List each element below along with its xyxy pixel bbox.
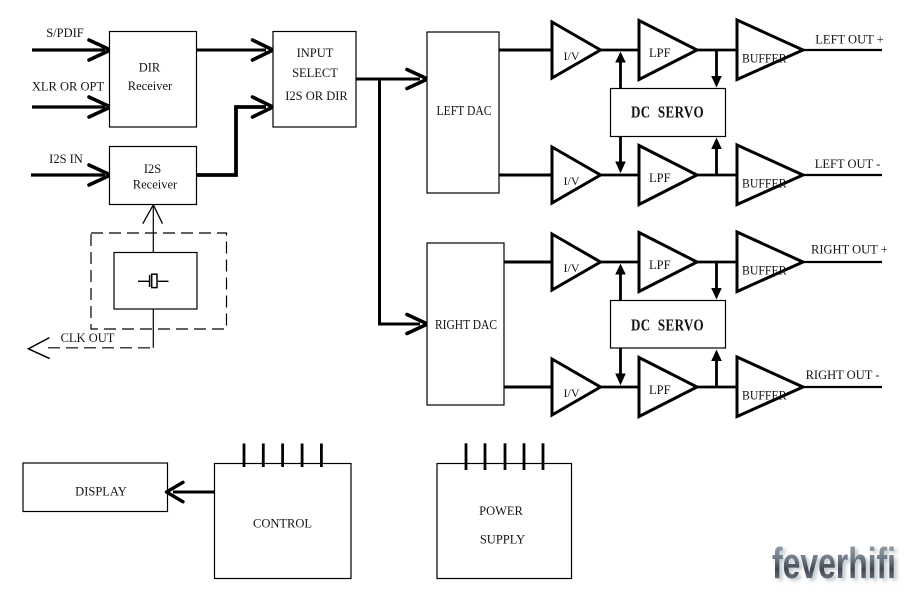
svg-text:CONTROL: CONTROL [253,517,312,531]
wire I/V3 to LPF3 [600,261,640,264]
power supply pins [466,443,543,470]
svg-text:BUFFER: BUFFER [742,389,787,403]
wire S/PDIF input [32,48,105,51]
svg-text:LPF: LPF [649,171,671,185]
svg-text:I2S OR DIR: I2S OR DIR [285,89,348,103]
svg-text:I2S IN: I2S IN [49,152,83,166]
amplifier LPF row1 [639,21,697,80]
servo1 arrow down into row2 wire [619,137,622,164]
amplifier I/V row4 [552,359,601,415]
open arrowhead at I2S receiver bottom [143,205,163,224]
wire right dac to I/V row3 [504,261,553,264]
svg-text:I2S: I2S [144,162,161,176]
block DC SERVO right [611,301,726,349]
block POWER SUPPLY [437,464,572,579]
servo1 arrow up into row1 wire [619,60,622,89]
svg-text:LEFT OUT -: LEFT OUT - [815,157,881,171]
svg-text:S/PDIF: S/PDIF [46,26,84,40]
amplifier BUFFER row3 [737,232,803,292]
svg-text:BUFFER: BUFFER [742,264,787,278]
wire I/V1 to LPF1 [600,49,640,52]
block DC SERVO left [611,89,726,137]
block LEFT DAC [427,32,499,193]
open arrowhead CLK OUT [28,338,49,359]
arrowhead into DIR receiver (XLR) [89,97,111,117]
amplifier BUFFER row2 [737,145,803,205]
svg-text:XLR OR OPT: XLR OR OPT [32,80,105,94]
arrowhead into I2S receiver [89,165,111,185]
svg-text:DC SERVO: DC SERVO [631,316,704,335]
servo1 arrow down from row1 wire into box [715,50,718,78]
amplifier I/V row3 [552,234,601,290]
svg-text:DIR: DIR [139,61,161,75]
svg-text:SELECT: SELECT [292,66,338,80]
wire I/V4 to LPF4 [600,386,640,389]
servo2 arrow down into row4 wire [619,348,622,375]
arrowhead into right dac [407,315,428,334]
servo2 arrow up from row4 wire into box [715,360,718,387]
crystal symbol [138,274,169,287]
svg-text:I/V: I/V [564,174,580,188]
wire right dac to I/V row4 [504,386,553,389]
wire crystal to I2S receiver [152,206,154,253]
amplifier LPF row2 [639,146,697,205]
block RIGHT DAC [427,243,504,405]
svg-text:BUFFER: BUFFER [742,52,787,66]
svg-text:LPF: LPF [649,46,671,60]
watermark feverhifi [772,539,899,591]
wire LPF4 to BUFFER4 [696,386,738,389]
arrowhead into left dac [407,70,428,89]
wire BUFFER1 output [802,49,882,51]
svg-text:SUPPLY: SUPPLY [480,532,525,546]
wire BUFFER4 output [802,386,882,388]
block DISPLAY [23,463,168,512]
block DIR Receiver [110,32,197,128]
svg-text:Receiver: Receiver [128,79,173,93]
wire control to display [173,491,215,494]
svg-text:BUFFER: BUFFER [742,177,787,191]
arrowhead into DIR receiver (S/PDIF) [89,40,111,60]
svg-text:I/V: I/V [564,49,580,63]
servo2 arrow up into row3 wire [619,272,622,301]
svg-text:feverhifi: feverhifi [772,539,896,588]
svg-text:LPF: LPF [649,383,671,397]
wire branch down to right dac [380,79,421,324]
svg-text:CLK OUT: CLK OUT [61,331,115,345]
svg-text:RIGHT OUT -: RIGHT OUT - [806,368,880,382]
wire LPF1 to BUFFER1 [696,49,738,52]
wire XLR input [32,105,105,108]
svg-text:LEFT OUT +: LEFT OUT + [815,32,883,46]
svg-text:INPUT: INPUT [297,46,334,60]
wire I/V2 to LPF2 [600,174,640,177]
svg-text:LEFT DAC: LEFT DAC [437,103,492,118]
block CONTROL [215,464,352,579]
wire input select to left dac [356,78,420,81]
svg-text:DISPLAY: DISPLAY [75,485,127,499]
arrowhead into input select (bottom) [253,97,274,117]
amplifier I/V row1 [552,22,601,78]
wire I2S receiver to input select (elbow) [197,107,267,175]
amplifier BUFFER row1 [737,20,803,80]
svg-text:DC SERVO: DC SERVO [631,103,704,122]
wire BUFFER3 output [802,261,882,263]
servo2 arrow down from row3 wire into box [715,262,718,290]
amplifier LPF row4 [639,358,697,417]
wire I2S input [31,173,105,176]
arrowhead into display [167,482,184,502]
servo1 arrow up from row2 wire into box [715,148,718,175]
svg-text:I/V: I/V [564,261,580,275]
wire left dac to I/V row1 [499,49,553,52]
svg-text:Receiver: Receiver [133,178,178,192]
crystal oscillator box [114,253,197,310]
svg-text:I/V: I/V [564,386,580,400]
dashed CLK OUT wire [44,347,150,349]
wire LPF3 to BUFFER3 [696,261,738,264]
wire LPF2 to BUFFER2 [696,174,738,177]
arrowhead into input select (top) [253,40,274,60]
amplifier LPF row3 [639,233,697,292]
control pins [244,444,321,468]
svg-text:LPF: LPF [649,258,671,272]
block INPUT SELECT [273,32,356,128]
svg-text:RIGHT OUT +: RIGHT OUT + [811,243,888,257]
svg-text:POWER: POWER [479,504,523,518]
clock module dashed box [91,233,227,329]
svg-text:RIGHT DAC: RIGHT DAC [435,317,497,332]
wire crystal box down to CLK OUT [152,309,154,348]
wire left dac to I/V row2 [499,174,553,177]
amplifier BUFFER row4 [737,357,803,417]
amplifier I/V row2 [552,147,601,203]
block I2S Receiver [110,147,197,205]
wire BUFFER2 output [802,174,882,176]
wire DIR receiver to input select [196,49,266,52]
